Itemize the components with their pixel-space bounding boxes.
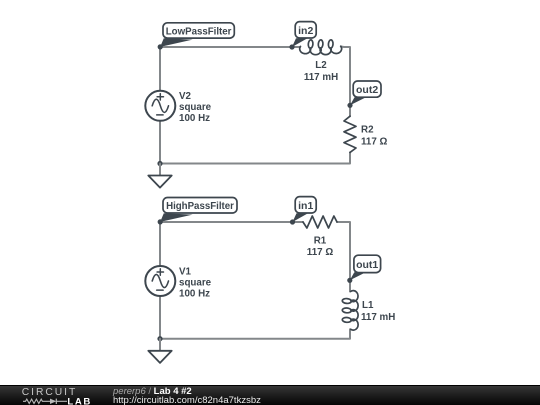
wire R1 right lead and right branch down to out1 (337, 222, 350, 280)
ground GND1 (148, 164, 171, 188)
net flag LowPassFilter (160, 23, 234, 47)
footer bar (0, 385, 540, 405)
junction dot bottom-left circuit 2 (157, 336, 162, 341)
wire L2 right lead and right branch down to out2 (341, 47, 350, 106)
svg-text:117 mH: 117 mH (361, 312, 395, 323)
svg-text:117 mH: 117 mH (304, 72, 338, 83)
node dot LowPassFilter (158, 44, 163, 49)
svg-text:L1: L1 (362, 300, 374, 311)
svg-text:square: square (179, 277, 212, 288)
svg-text:L2: L2 (315, 60, 327, 71)
svg-text:100 Hz: 100 Hz (179, 113, 210, 124)
voltage source V1 (145, 266, 175, 296)
net flag in1 (293, 197, 317, 222)
wire left LowPass vertical (159, 47, 161, 164)
node dot in1 (290, 219, 295, 224)
svg-text:R2: R2 (361, 125, 374, 136)
node dot HighPassFilter (158, 219, 163, 224)
node dot in2 (289, 44, 294, 49)
svg-text:R1: R1 (314, 236, 327, 247)
svg-text:100 Hz: 100 Hz (179, 288, 210, 299)
svg-text:out1: out1 (356, 259, 378, 271)
svg-text:in2: in2 (298, 25, 313, 37)
junction dot bottom-left circuit 1 (157, 161, 162, 166)
label V1 value square 100 Hz (179, 266, 212, 299)
node dot out2 (347, 103, 352, 108)
wire left HighPass vertical (159, 222, 161, 339)
wire out2 to R2 top (349, 105, 351, 116)
wire top HighPass: node to R1 (160, 221, 303, 223)
resistor R2 (344, 116, 356, 152)
net flag HighPassFilter (160, 198, 237, 222)
label R1 value 117 ohm (307, 236, 334, 259)
node dot out1 (347, 278, 352, 283)
footer title text (113, 388, 261, 405)
svg-text:V1: V1 (179, 266, 192, 277)
svg-text:in1: in1 (298, 200, 313, 212)
net flag out1 (350, 255, 381, 280)
wire R2 bottom to bottom-left corner of circuit 1 (160, 152, 350, 163)
net flag in2 (292, 22, 316, 47)
wire top LowPass: node to L2 (160, 46, 300, 48)
wire out1 to L1 top (349, 280, 351, 291)
svg-text:LAB: LAB (67, 396, 92, 405)
inductor L1 coil (342, 291, 358, 331)
svg-text:LowPassFilter: LowPassFilter (166, 26, 232, 37)
svg-text:out2: out2 (356, 84, 378, 96)
label L2 value 117 mH (304, 60, 338, 83)
net flag out2 (350, 81, 381, 105)
svg-text:V2: V2 (179, 91, 192, 102)
resistor R1 (303, 216, 337, 228)
label V2 value square 100 Hz (179, 91, 212, 124)
label L1 value 117 mH (361, 300, 395, 323)
inductor L2 coil (300, 40, 342, 55)
ground GND2 (148, 339, 171, 363)
wire L1 bottom to bottom-left corner of circuit 2 (160, 329, 350, 338)
svg-text:117 Ω: 117 Ω (361, 137, 388, 148)
CircuitLab logo (0, 386, 110, 405)
label R2 value 117 ohm (361, 125, 388, 148)
svg-text:HighPassFilter: HighPassFilter (166, 201, 234, 212)
svg-text:square: square (179, 102, 212, 113)
voltage source V2 (145, 91, 175, 121)
svg-text:117 Ω: 117 Ω (307, 247, 334, 258)
